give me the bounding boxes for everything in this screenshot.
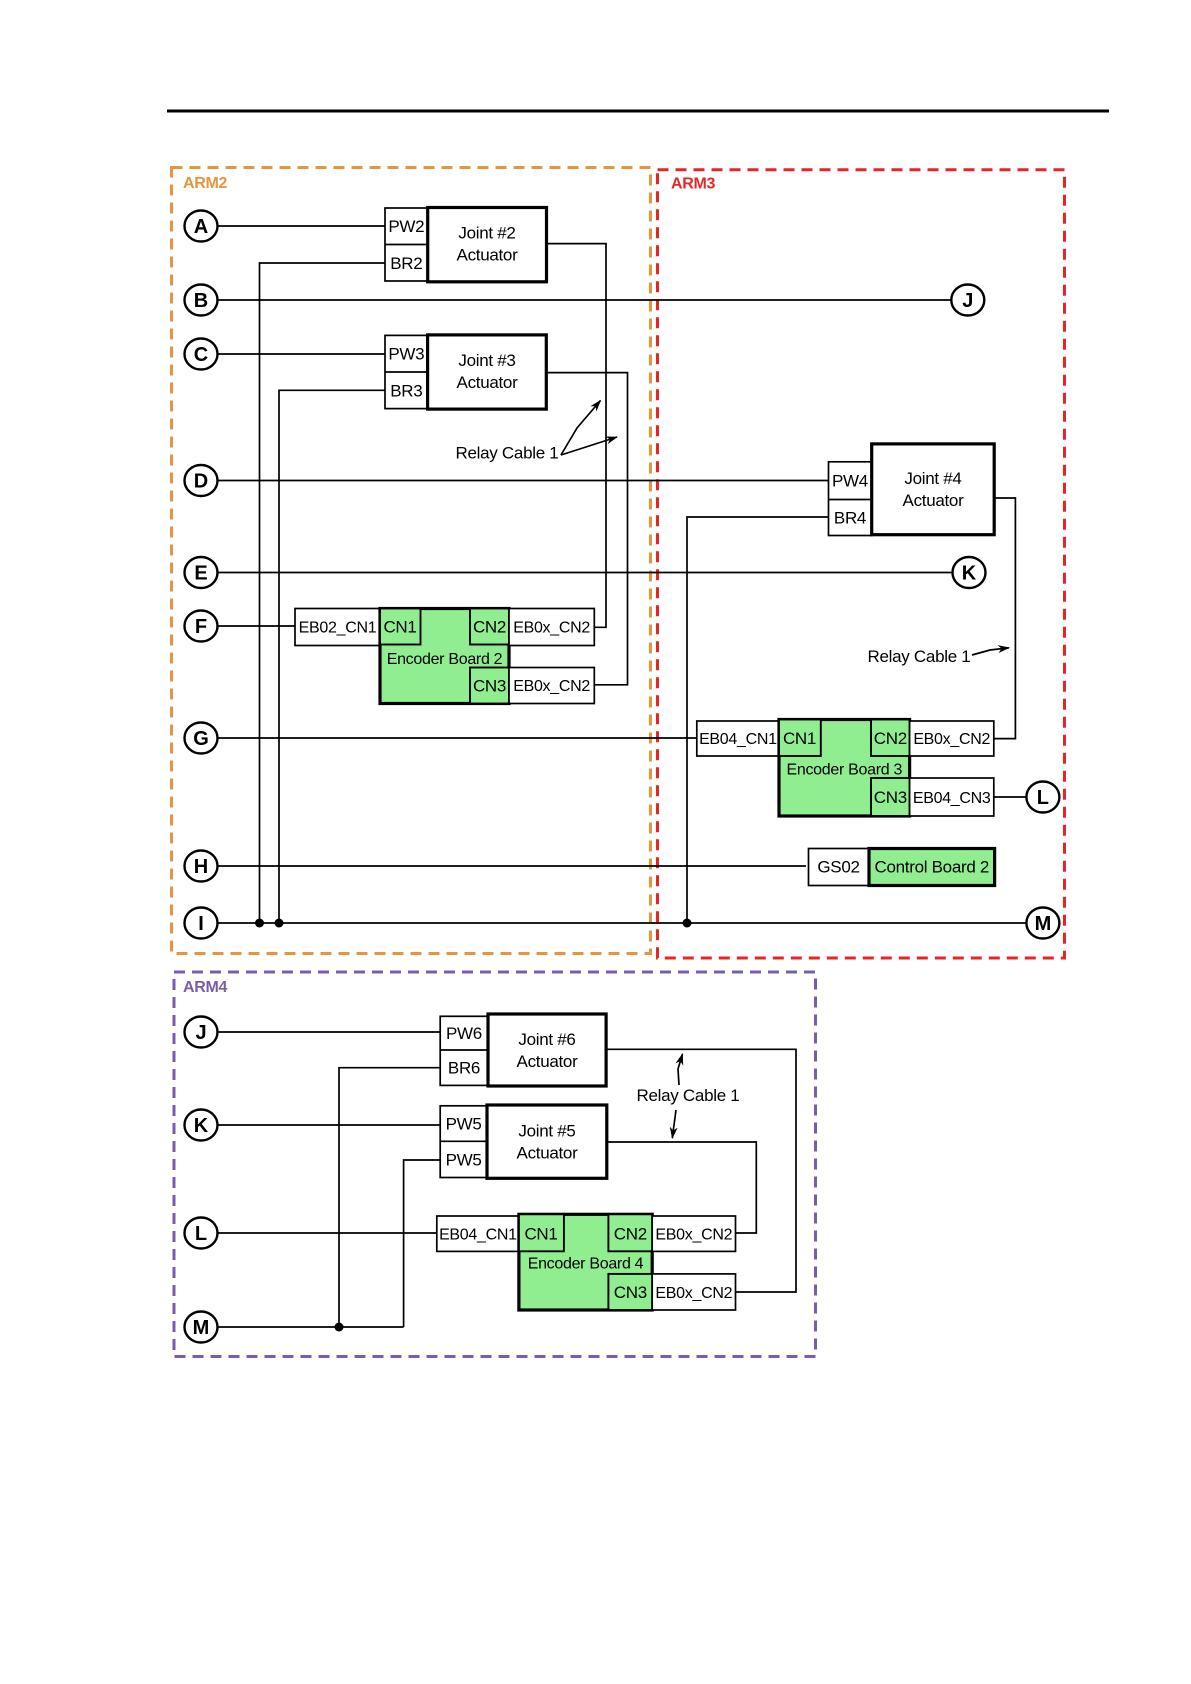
actuator Joint #2 xyxy=(428,208,547,282)
svg-text:CN3: CN3 xyxy=(473,677,506,696)
svg-text:Relay Cable 1: Relay Cable 1 xyxy=(456,444,559,463)
svg-text:Actuator: Actuator xyxy=(457,246,519,265)
connector EB0x_CN2 (EB2 bottom) xyxy=(509,668,594,704)
wire J2 to PW6 xyxy=(218,1031,441,1033)
svg-text:Joint #5: Joint #5 xyxy=(518,1122,575,1141)
connector EB0x_CN2 (EB2 top) xyxy=(509,609,594,646)
node I xyxy=(185,908,218,939)
connector PW2/BR2 xyxy=(385,208,428,281)
connector PW4/BR4 xyxy=(829,462,872,536)
encoder board 4 xyxy=(519,1214,652,1310)
pin CN1 (EB3) xyxy=(779,720,821,757)
svg-text:Actuator: Actuator xyxy=(517,1052,579,1071)
wire Joint2 relay out xyxy=(547,244,607,628)
svg-text:Control Board 2: Control Board 2 xyxy=(875,858,990,877)
svg-text:CN2: CN2 xyxy=(473,618,506,637)
svg-text:ARM2: ARM2 xyxy=(183,175,228,192)
svg-text:K: K xyxy=(194,1115,209,1137)
svg-text:GS02: GS02 xyxy=(817,858,859,877)
svg-text:M: M xyxy=(193,1317,210,1339)
svg-text:Actuator: Actuator xyxy=(517,1144,579,1163)
encoder board 2 xyxy=(380,609,509,704)
svg-text:Actuator: Actuator xyxy=(903,491,965,510)
svg-text:PW3: PW3 xyxy=(388,345,424,364)
svg-text:Encoder Board 3: Encoder Board 3 xyxy=(787,762,903,779)
pin CN3 (EB4) xyxy=(608,1274,652,1310)
pin CN1 (EB2) xyxy=(380,609,421,645)
svg-text:I: I xyxy=(198,913,204,935)
control board 2 xyxy=(869,849,995,886)
wire D to PW4 xyxy=(218,480,829,482)
wire M2 riser to PW5 lower xyxy=(404,1160,441,1327)
wire G to EB04_CN1 xyxy=(218,737,697,739)
ARM4 boundary xyxy=(174,972,816,1357)
junction dot BR2-I xyxy=(255,919,264,928)
node D xyxy=(185,465,218,496)
connector PW5/PW5 xyxy=(440,1106,487,1178)
node L (ARM4) xyxy=(185,1218,218,1249)
svg-text:Relay Cable 1: Relay Cable 1 xyxy=(868,647,971,666)
connector PW3/BR3 xyxy=(385,335,428,408)
encoder board 3 xyxy=(779,720,910,817)
arrow relay ARM2 to Joint3 cable xyxy=(561,437,617,455)
junction dot BR3-I xyxy=(275,919,284,928)
arrow relay ARM2 to Joint2 cable xyxy=(561,401,601,456)
svg-text:CN2: CN2 xyxy=(614,1225,647,1244)
svg-text:PW5: PW5 xyxy=(446,1151,482,1170)
wire I to M xyxy=(218,922,1027,924)
svg-text:BR6: BR6 xyxy=(448,1059,480,1078)
svg-text:EB0x_CN2: EB0x_CN2 xyxy=(513,620,590,637)
connector EB0x_CN2 (EB3) xyxy=(910,721,994,756)
svg-text:K: K xyxy=(962,563,977,585)
svg-text:D: D xyxy=(194,471,208,493)
svg-text:Joint #3: Joint #3 xyxy=(458,351,515,370)
svg-text:C: C xyxy=(194,344,208,366)
wire K2 to PW5 xyxy=(218,1124,441,1126)
svg-text:Encoder Board 4: Encoder Board 4 xyxy=(528,1256,644,1273)
svg-text:EB0x_CN2: EB0x_CN2 xyxy=(655,1227,732,1244)
svg-text:BR3: BR3 xyxy=(390,382,422,401)
junction dot M2 riser xyxy=(335,1323,344,1332)
svg-text:J: J xyxy=(195,1022,206,1044)
svg-text:ARM3: ARM3 xyxy=(671,176,716,193)
svg-text:ARM4: ARM4 xyxy=(183,979,228,996)
svg-text:F: F xyxy=(195,616,207,638)
node C xyxy=(185,339,218,370)
svg-text:L: L xyxy=(1037,787,1049,809)
pin CN2 (EB2) xyxy=(470,609,509,645)
wire M2 riser to BR6 xyxy=(339,1068,440,1327)
node J xyxy=(951,285,984,316)
svg-text:EB0x_CN2: EB0x_CN2 xyxy=(513,678,590,695)
svg-text:CN2: CN2 xyxy=(874,729,907,748)
svg-text:CN3: CN3 xyxy=(614,1283,647,1302)
connector PW6/BR6 xyxy=(440,1016,488,1085)
connector EB0x_CN2 (EB4 top) xyxy=(652,1216,735,1251)
svg-text:Encoder Board 2: Encoder Board 2 xyxy=(387,651,503,668)
wire L to EB04_CN3 xyxy=(994,796,1027,798)
svg-text:CN1: CN1 xyxy=(524,1225,557,1244)
svg-text:EB04_CN3: EB04_CN3 xyxy=(913,790,991,807)
svg-text:L: L xyxy=(195,1223,207,1245)
arrow relay ARM4 up to Joint6 cable xyxy=(678,1054,683,1085)
svg-text:Joint #2: Joint #2 xyxy=(458,224,515,243)
connector EB0x_CN2 (EB4 bottom) xyxy=(652,1274,735,1310)
svg-text:M: M xyxy=(1035,913,1052,935)
wire C to PW3 xyxy=(218,353,386,355)
wire F to EB02_CN1 xyxy=(218,625,296,627)
node K xyxy=(953,557,986,588)
wire L2 to EB04_CN1 xyxy=(218,1232,437,1234)
wire Joint5 relay out xyxy=(607,1142,757,1233)
svg-text:BR2: BR2 xyxy=(390,254,422,273)
pin CN1 (EB4) xyxy=(519,1214,564,1251)
node L xyxy=(1026,782,1059,813)
svg-text:PW2: PW2 xyxy=(388,217,424,236)
svg-text:EB04_CN1: EB04_CN1 xyxy=(439,1227,517,1244)
ARM2 boundary xyxy=(172,168,651,954)
actuator Joint #3 xyxy=(428,335,547,409)
svg-text:CN1: CN1 xyxy=(383,618,416,637)
svg-text:EB0x_CN2: EB0x_CN2 xyxy=(913,731,990,748)
node K (ARM4) xyxy=(185,1110,218,1141)
junction dot BR4-I xyxy=(683,919,692,928)
node A xyxy=(185,211,218,242)
svg-text:BR4: BR4 xyxy=(834,509,866,528)
node B xyxy=(185,285,218,316)
arrow relay ARM3 to Joint4 cable xyxy=(972,648,1009,655)
svg-text:Relay Cable 1: Relay Cable 1 xyxy=(637,1086,740,1105)
pin CN2 (EB4) xyxy=(608,1214,652,1251)
svg-text:H: H xyxy=(194,856,208,878)
svg-text:Joint #4: Joint #4 xyxy=(904,469,961,488)
pin CN3 (EB2) xyxy=(470,668,509,704)
svg-text:PW4: PW4 xyxy=(832,472,868,491)
pin CN3 (EB3) xyxy=(871,778,910,816)
svg-text:G: G xyxy=(193,728,209,750)
top rule xyxy=(167,110,1109,113)
svg-text:J: J xyxy=(962,290,973,312)
svg-text:B: B xyxy=(194,290,208,312)
connector GS02 xyxy=(809,849,870,886)
wire Joint4 relay out xyxy=(994,498,1016,739)
svg-text:PW6: PW6 xyxy=(446,1024,482,1043)
connector EB02_CN1 xyxy=(295,609,380,646)
ARM3 boundary xyxy=(658,170,1065,958)
arrow relay ARM4 down to Joint5 cable xyxy=(672,1110,676,1138)
svg-text:Joint #6: Joint #6 xyxy=(518,1030,575,1049)
node E xyxy=(185,557,218,588)
wire B to J xyxy=(218,299,952,301)
svg-text:CN3: CN3 xyxy=(874,788,907,807)
connector EB04_CN3 xyxy=(910,778,994,816)
svg-text:E: E xyxy=(194,563,207,585)
node F xyxy=(185,611,218,642)
node J (ARM4) xyxy=(185,1017,218,1048)
node M (ARM4) xyxy=(185,1312,218,1343)
wire BR3 drop xyxy=(279,390,385,923)
node H xyxy=(185,851,218,882)
svg-text:PW5: PW5 xyxy=(446,1115,482,1134)
svg-text:A: A xyxy=(194,216,208,238)
wire H to GS02 xyxy=(218,865,807,867)
actuator Joint #5 xyxy=(487,1105,607,1178)
pin CN2 (EB3) xyxy=(871,720,910,757)
wire BR2 drop xyxy=(260,263,386,923)
wire BR4 drop xyxy=(687,517,829,923)
actuator Joint #4 xyxy=(872,444,995,535)
svg-text:CN1: CN1 xyxy=(783,729,816,748)
svg-text:EB0x_CN2: EB0x_CN2 xyxy=(655,1285,732,1302)
svg-text:EB04_CN1: EB04_CN1 xyxy=(699,731,777,748)
node M xyxy=(1026,908,1059,939)
connector EB04_CN1 (EB4) xyxy=(437,1216,519,1251)
svg-text:EB02_CN1: EB02_CN1 xyxy=(299,620,377,637)
connector EB04_CN1 (EB3) xyxy=(697,721,779,756)
node G xyxy=(185,723,218,754)
wire Joint3 relay out xyxy=(546,373,627,685)
wire M2 bus xyxy=(218,1326,404,1328)
svg-text:Actuator: Actuator xyxy=(457,373,519,392)
actuator Joint #6 xyxy=(488,1014,606,1086)
wire A to PW2 xyxy=(218,225,386,227)
wire Joint6 relay out xyxy=(606,1049,796,1292)
wire E to K xyxy=(218,572,953,574)
